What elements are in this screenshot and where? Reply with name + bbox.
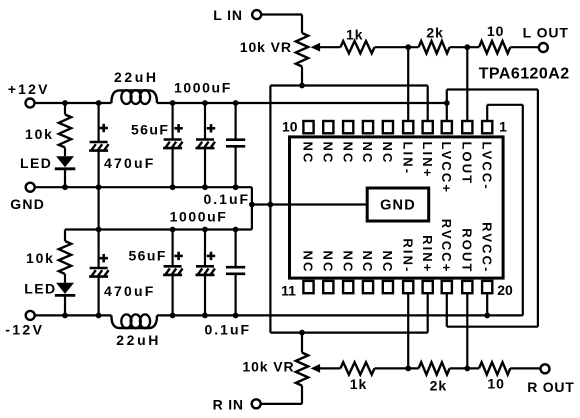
wire: -12V rail left	[34, 314, 111, 316]
plates	[196, 265, 214, 268]
junction GND rail 2 / 56uF b	[202, 227, 208, 233]
svg-text:10: 10	[487, 376, 505, 392]
svg-text:22uH: 22uH	[116, 332, 161, 348]
resistor 1k (bottom)	[340, 362, 374, 374]
svg-text:20: 20	[497, 282, 513, 298]
capacitor 0.1uF (top)	[235, 103, 237, 140]
svg-text:470uF: 470uF	[104, 283, 155, 299]
wire: LVCC+ pin riser	[446, 103, 448, 123]
svg-text:NC: NC	[340, 251, 355, 274]
wire: LVCC- pin riser	[486, 105, 488, 123]
wire: R wiper to 1k	[320, 367, 341, 369]
junction -12V rail / RVCC-	[484, 313, 490, 319]
svg-text:56uF: 56uF	[131, 121, 169, 137]
junction GND rail / 0.1uF	[233, 184, 239, 190]
wiper arrow (R pot)	[311, 364, 321, 373]
wire: to R IN terminal	[261, 403, 302, 405]
capacitor 470uF (bottom)	[97, 230, 99, 269]
node L IN terminal	[252, 10, 261, 19]
junction L pot bottom / LIN+ / gnd	[299, 83, 305, 89]
GND box	[367, 188, 429, 221]
plates	[164, 138, 182, 141]
svg-text:11: 11	[281, 282, 296, 298]
pin squares top row	[303, 121, 313, 133]
node R OUT terminal	[541, 364, 550, 373]
svg-text:LVCC-: LVCC-	[479, 142, 494, 191]
wire: 1k to 2k	[375, 46, 419, 48]
junction +12V rail / 0.1uF top	[233, 100, 239, 106]
svg-text:RVCC+: RVCC+	[439, 219, 454, 274]
wire: VCC- right column	[522, 105, 524, 316]
junction GND rail / 470uF	[96, 184, 102, 190]
wire: R pot top lead	[301, 333, 303, 353]
svg-text:56uF: 56uF	[129, 248, 167, 264]
node GND terminal	[26, 183, 35, 192]
svg-text:NC: NC	[301, 251, 316, 274]
svg-text:LED: LED	[24, 281, 56, 297]
svg-text:2k: 2k	[430, 377, 448, 393]
wire: LOUT pin riser	[466, 47, 468, 123]
wire: ROUT pin riser	[466, 291, 468, 368]
svg-text:LIN-: LIN-	[400, 142, 415, 176]
junction GND rail / 56uF a	[170, 184, 176, 190]
wire: negative-section upper gnd rail	[65, 228, 252, 230]
svg-text:RIN+: RIN+	[420, 235, 435, 273]
plates	[90, 267, 108, 270]
node +12V terminal	[26, 99, 35, 108]
svg-text:LIN+: LIN+	[420, 142, 435, 179]
svg-text:NC: NC	[340, 142, 355, 165]
svg-text:TPA6120A2: TPA6120A2	[479, 66, 570, 83]
node L OUT terminal	[539, 43, 548, 52]
wire: gnd bottom line to RIN+	[270, 332, 427, 334]
junction -12V rail / 470uF	[96, 313, 102, 319]
svg-text:470uF: 470uF	[104, 155, 155, 171]
LED (bottom)	[64, 274, 66, 283]
wire: LIN+ / pot-bottom ground line	[270, 84, 427, 86]
wire: upper gnd rail corner up	[251, 205, 253, 230]
wire: GND rail corner down	[251, 187, 253, 204]
svg-text:R OUT: R OUT	[527, 379, 574, 395]
junction +12V rail / 56uF a top	[170, 100, 176, 106]
wire: LED top cathode to GND rail	[64, 169, 66, 187]
wire: -12V rail right	[157, 314, 523, 316]
resistor 10 (top)	[479, 41, 510, 53]
svg-text:-12V: -12V	[5, 322, 44, 338]
svg-text:LOUT: LOUT	[460, 142, 475, 186]
wire: +12V rail left	[34, 102, 111, 104]
junction +12V rail / 10k top	[62, 100, 68, 106]
svg-text:L IN: L IN	[213, 7, 243, 23]
wire: gnd to IC GND box	[252, 203, 367, 205]
junction 2k/10/LOUT	[464, 44, 470, 50]
junction -12V rail / 56uF b	[202, 313, 208, 319]
svg-text:10k VR: 10k VR	[242, 359, 294, 375]
junction 1k/2k/RIN-	[405, 366, 411, 372]
svg-text:0.1uF: 0.1uF	[204, 191, 251, 207]
wire: RIN- pin riser	[407, 291, 409, 368]
potentiometer 10k VR (right/bottom)	[296, 353, 308, 386]
svg-text:+12V: +12V	[8, 81, 50, 97]
svg-text:2k: 2k	[426, 24, 444, 40]
junction GND rail 2 / 0.1uF	[233, 227, 239, 233]
svg-text:1k: 1k	[350, 376, 368, 392]
resistor 10k (left top)	[64, 103, 66, 115]
plates	[90, 141, 108, 144]
wire: 10 to L OUT	[510, 46, 539, 48]
wire: +12V top routing	[447, 88, 538, 90]
wire: +12V up from rail	[446, 90, 448, 104]
svg-text:1: 1	[499, 119, 507, 135]
svg-text:NC: NC	[321, 142, 336, 165]
pin squares bottom row	[303, 281, 313, 293]
inductor 22uH (bottom)	[111, 315, 157, 328]
wiper arrow (L pot)	[311, 43, 321, 52]
wire: RVCC+ pin riser	[446, 291, 448, 327]
wire: +12V bottom routing	[447, 326, 538, 328]
wire: pot wiper to 1k	[320, 46, 341, 48]
resistor 2k (top)	[419, 41, 450, 53]
wire: ground spine	[269, 86, 271, 333]
junction +12V rail / 470uF top	[96, 100, 102, 106]
plates	[196, 138, 214, 141]
svg-text:NC: NC	[380, 142, 395, 165]
junction GND rail / 56uF b	[202, 184, 208, 190]
wire: LIN+ pin riser	[427, 86, 429, 124]
junction -12V rail / 0.1uF	[233, 313, 239, 319]
svg-text:0.1uF: 0.1uF	[205, 322, 252, 338]
wire: gnd rails link	[97, 187, 99, 229]
svg-text:GND: GND	[380, 198, 416, 214]
svg-text:L OUT: L OUT	[523, 24, 569, 40]
junction -12V rail / 56uF a	[170, 313, 176, 319]
svg-text:NC: NC	[360, 251, 375, 274]
junction 2k/10/ROUT	[464, 366, 470, 372]
wire: pot bottom	[301, 67, 303, 86]
svg-text:GND: GND	[10, 196, 45, 212]
wire: RVCC- riser	[486, 291, 488, 315]
capacitor 56uF (top bank 2)	[204, 103, 206, 140]
resistor 1k (top)	[340, 41, 374, 53]
svg-text:NC: NC	[301, 142, 316, 165]
wire: LIN- pin riser	[407, 47, 409, 123]
svg-text:10: 10	[282, 119, 298, 135]
capacitor 56uF (bottom bank 2)	[204, 230, 206, 267]
resistor 2k (bottom)	[419, 362, 450, 374]
svg-text:10: 10	[487, 23, 505, 39]
svg-text:NC: NC	[380, 251, 395, 274]
wire: R pot bottom lead	[301, 386, 303, 404]
svg-text:LVCC+: LVCC+	[439, 142, 454, 195]
wire: LED bottom cathode to -12V rail	[64, 295, 66, 315]
svg-text:LED: LED	[20, 155, 52, 171]
wire: 2k to 10	[450, 46, 479, 48]
junction +12V rail / 56uF b top	[202, 100, 208, 106]
wire: RIN+ pin riser	[427, 291, 429, 332]
junction -12V rail / LED	[62, 313, 68, 319]
capacitor 56uF (bottom bank 1)	[172, 230, 174, 267]
svg-text:RVCC-: RVCC-	[479, 222, 494, 273]
junction GND rail 2 / 470uF link	[96, 227, 102, 233]
resistor 10 (bottom)	[479, 362, 510, 374]
node R IN terminal	[252, 399, 261, 408]
plates	[164, 265, 182, 268]
junction 1k/2k/LIN-	[405, 44, 411, 50]
potentiometer 10k VR (left/top)	[296, 33, 308, 67]
junction gnd spine / gnd wire	[268, 202, 274, 208]
LED (top)	[64, 148, 66, 157]
wire: GND rail	[34, 186, 252, 188]
junction GND rail 2 / 56uF a	[170, 227, 176, 233]
svg-text:1000uF: 1000uF	[174, 80, 232, 96]
wire: +12V rail right to LVCC+	[157, 102, 447, 104]
junction +12V rail / LVCC+ rail	[444, 100, 450, 106]
junction GND rail / LED	[62, 184, 68, 190]
svg-text:NC: NC	[360, 142, 375, 165]
svg-text:22uH: 22uH	[114, 69, 159, 85]
capacitor 470uF (top)	[97, 103, 99, 142]
svg-text:1000uF: 1000uF	[170, 209, 228, 225]
svg-text:R IN: R IN	[213, 397, 244, 413]
svg-text:10k: 10k	[26, 250, 55, 266]
resistor 10k (left bottom)	[64, 230, 66, 242]
svg-text:NC: NC	[321, 251, 336, 274]
wire: L IN to pot	[261, 13, 302, 15]
op-amp U1 TPA6120A2 body	[290, 137, 504, 278]
wire: LVCC- top routing	[487, 104, 523, 106]
svg-text:10k VR: 10k VR	[240, 39, 292, 55]
svg-text:ROUT: ROUT	[460, 228, 475, 273]
wire: +12V right column	[537, 90, 539, 327]
capacitor 56uF (top bank 1)	[172, 103, 174, 140]
svg-text:10k: 10k	[25, 126, 54, 142]
node -12V terminal	[26, 311, 35, 320]
capacitor 0.1uF (bottom)	[235, 230, 237, 268]
inductor 22uH (top)	[111, 90, 157, 103]
junction gnd rails meet	[249, 202, 255, 208]
junction R pot top / gnd	[299, 330, 305, 336]
svg-text:1k: 1k	[346, 27, 364, 43]
svg-text:RIN-: RIN-	[400, 238, 415, 273]
